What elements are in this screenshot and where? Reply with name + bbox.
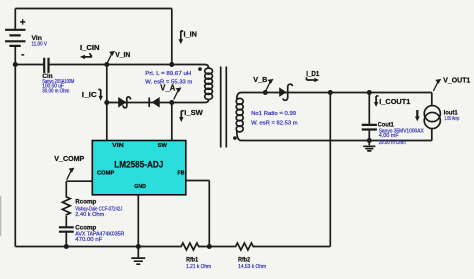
- svg-text:4.00 mF: 4.00 mF: [379, 133, 400, 139]
- svg-text:I_CIN: I_CIN: [80, 43, 100, 52]
- svg-text:470.00 nF: 470.00 nF: [75, 237, 103, 243]
- svg-text:No1 Ratio = 0.99: No1 Ratio = 0.99: [251, 111, 296, 117]
- svg-text:14.53 k Ohm: 14.53 k Ohm: [238, 264, 266, 270]
- svg-text:VIN: VIN: [112, 143, 124, 149]
- svg-text:2.40 k Ohm: 2.40 k Ohm: [75, 212, 104, 218]
- svg-text:I_IN: I_IN: [184, 29, 198, 38]
- svg-text:30.00 m Ohm: 30.00 m Ohm: [42, 88, 69, 94]
- svg-text:Pri. L = 89.67 uH: Pri. L = 89.67 uH: [145, 71, 191, 77]
- svg-text:FB: FB: [177, 170, 184, 176]
- svg-text:1.21 k Ohm: 1.21 k Ohm: [186, 264, 211, 270]
- svg-text:W. esR = 55.33 m: W. esR = 55.33 m: [145, 80, 192, 86]
- svg-text:29.00 m Ohm: 29.00 m Ohm: [379, 140, 406, 146]
- svg-text:+: +: [20, 18, 26, 29]
- svg-text:Rcomp: Rcomp: [75, 199, 96, 206]
- svg-text:1.00 Amp: 1.00 Amp: [444, 116, 459, 122]
- svg-text:Rfb2: Rfb2: [238, 257, 250, 264]
- svg-text:11.00 V: 11.00 V: [32, 41, 48, 47]
- svg-text:Ccomp: Ccomp: [75, 224, 96, 231]
- svg-text:Rfb1: Rfb1: [186, 257, 198, 264]
- svg-text:COMP: COMP: [97, 170, 115, 176]
- svg-text:V_B: V_B: [253, 75, 267, 84]
- svg-text:I_COUT1: I_COUT1: [379, 97, 410, 106]
- svg-text:-: -: [21, 50, 24, 61]
- svg-text:I_SW: I_SW: [184, 108, 203, 117]
- svg-text:I_D1: I_D1: [306, 69, 319, 78]
- svg-text:V_IN: V_IN: [115, 50, 130, 59]
- svg-text:GND: GND: [134, 184, 146, 190]
- svg-text:V_OUT1: V_OUT1: [443, 76, 470, 85]
- svg-text:V_COMP: V_COMP: [54, 154, 84, 163]
- svg-text:I_IC: I_IC: [82, 90, 98, 99]
- svg-text:W. esR = 82.53 m: W. esR = 82.53 m: [251, 120, 298, 126]
- svg-text:SW: SW: [158, 143, 168, 149]
- svg-text:LM2585-ADJ: LM2585-ADJ: [114, 159, 163, 169]
